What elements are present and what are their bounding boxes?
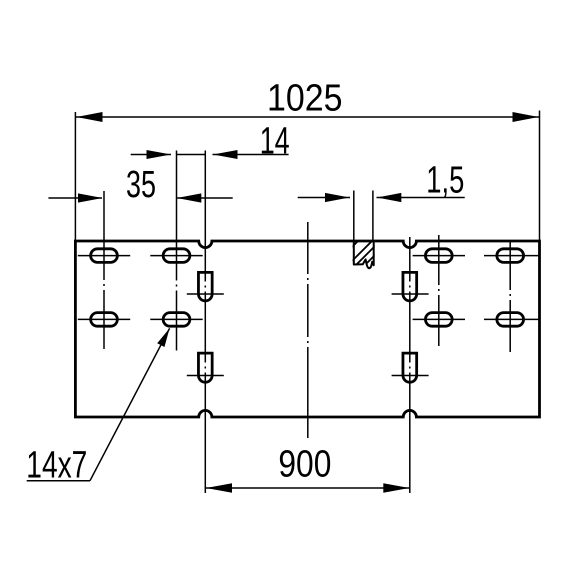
svg-text:1,5: 1,5	[426, 159, 464, 201]
svg-text:1025: 1025	[267, 78, 343, 120]
svg-text:900: 900	[278, 444, 331, 486]
svg-text:14: 14	[260, 121, 290, 163]
svg-text:35: 35	[126, 164, 156, 206]
svg-text:14x7: 14x7	[26, 445, 87, 487]
